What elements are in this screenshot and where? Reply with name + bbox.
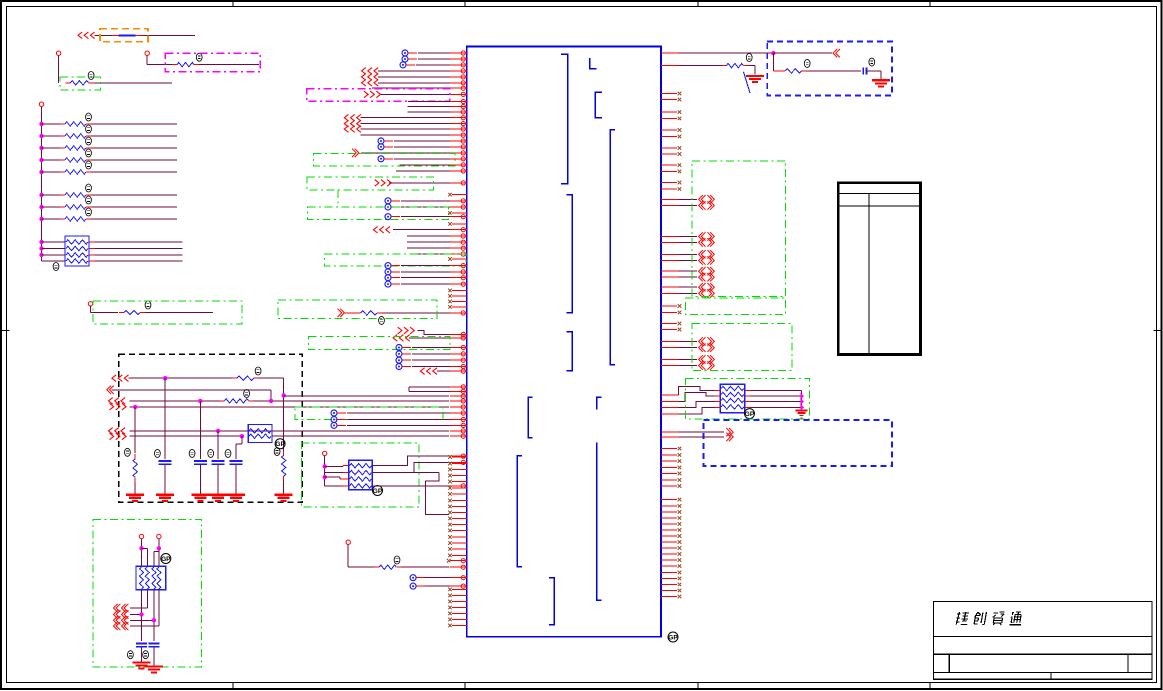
resistor RB1 label: [86, 184, 92, 192]
pin: [661, 347, 679, 349]
pin no-connect: [661, 559, 677, 561]
resistor R3: [119, 312, 124, 314]
pin no-connect: [452, 295, 467, 297]
wire: [401, 206, 450, 208]
pin: [450, 395, 467, 397]
resistor pack RP3 element 2: [145, 567, 149, 589]
wire: [154, 551, 159, 553]
pin no-connect: [452, 517, 467, 519]
junction: [152, 618, 156, 622]
junction: [39, 253, 43, 257]
pin: [661, 413, 679, 415]
wire: [153, 647, 155, 666]
pin: [450, 152, 467, 154]
wire: [412, 366, 450, 368]
ground: [275, 494, 293, 496]
wire: [745, 390, 751, 392]
pin no-connect: [661, 305, 677, 307]
connector arrow: [114, 616, 118, 624]
resistor R9 label: [394, 556, 400, 564]
frame tick: [464, 1, 466, 7]
wire: [382, 312, 450, 314]
junction: [39, 158, 43, 162]
connector arrow: [699, 267, 703, 275]
connector arrow: [352, 149, 356, 157]
capacitor C4: [230, 460, 243, 462]
title block divider c: [1050, 673, 1052, 680]
wire elbow: [42, 260, 66, 262]
resistor pack RP5 element 1: [721, 386, 744, 390]
bus bracket: [561, 54, 568, 183]
resistor RB3: [42, 218, 61, 220]
pin: [661, 253, 679, 255]
junction: [39, 217, 43, 221]
wire: [325, 485, 343, 487]
connector arrow: [398, 327, 402, 334]
pin: [450, 200, 467, 202]
pin: [450, 117, 467, 119]
pin no-connect: [452, 475, 467, 477]
connector arrow: [110, 403, 114, 410]
svg-text:GP: GP: [161, 556, 171, 563]
pin no-connect: [661, 164, 677, 166]
blue pin: [402, 50, 408, 56]
wire: [394, 146, 450, 148]
highlight box (magenta): [307, 89, 450, 102]
resistor R1 label: [88, 72, 94, 80]
pin: [450, 247, 467, 249]
pin no-connect: [661, 499, 677, 501]
bus bracket: [595, 92, 602, 117]
junction: [39, 240, 43, 244]
wire: [772, 53, 774, 71]
pin: [450, 435, 467, 437]
pin: [450, 52, 467, 54]
blue pin: [385, 275, 391, 281]
pin: [450, 123, 467, 125]
wire: [42, 241, 66, 243]
pin no-connect: [452, 511, 467, 513]
resistor RB2 label: [86, 196, 92, 204]
resistor pack RP1 body: [65, 236, 89, 266]
pin: [450, 206, 467, 208]
wire pack out 4: [372, 485, 450, 487]
pin: [450, 64, 467, 66]
wire: [867, 70, 881, 72]
junction: [163, 376, 167, 380]
ground: [796, 410, 808, 412]
wire: [347, 412, 450, 414]
resistor RA1 label: [86, 113, 92, 121]
bus bracket: [597, 397, 602, 409]
wire: [401, 277, 450, 279]
wire: [284, 395, 449, 397]
pin: [450, 140, 467, 142]
connector arrow: [373, 226, 377, 233]
junction: [39, 193, 43, 197]
wire: [325, 466, 343, 468]
frame tick: [697, 1, 699, 7]
connector arrow: [344, 126, 348, 133]
highlight box (orange): [100, 29, 148, 42]
pin no-connect: [661, 553, 677, 555]
net arrow: [800, 393, 804, 400]
pin: [661, 365, 679, 367]
pin: [450, 106, 467, 108]
junction: [39, 205, 43, 209]
resistor pack RP1 element 3: [66, 253, 88, 257]
pin: [450, 577, 467, 579]
ground: [156, 494, 174, 496]
wire: [134, 482, 136, 494]
pin no-connect: [661, 565, 677, 567]
wire: [416, 64, 450, 66]
pin no-connect: [452, 505, 467, 507]
junction: [39, 246, 43, 250]
wire: [134, 407, 136, 453]
resistor pack RP3 element 4: [157, 567, 161, 589]
wire: [418, 331, 450, 335]
pin: [450, 366, 467, 368]
resistor pack RP1 label: [53, 263, 59, 271]
wire: [241, 436, 243, 444]
connector arrow: [107, 386, 111, 394]
green link: [442, 413, 444, 420]
ground: [191, 494, 209, 496]
wire: [425, 585, 450, 587]
resistor pack RP5 body: [720, 384, 745, 413]
resistor R1: [65, 82, 70, 84]
pin: [450, 370, 467, 372]
pin: [450, 58, 467, 60]
pin: [450, 419, 467, 421]
junction: [198, 399, 202, 403]
frame tick: [929, 1, 931, 7]
resistor pack RP5 element 2: [721, 392, 744, 396]
highlight box (green): [93, 519, 201, 667]
resistor pack RP3 body: [136, 566, 166, 590]
highlight box (magenta): [165, 53, 260, 71]
connector arrow: [699, 273, 703, 281]
pin: [450, 235, 467, 237]
pin no-connect: [661, 517, 677, 519]
ground: [227, 494, 245, 496]
bus bracket: [517, 456, 522, 567]
wire: [412, 347, 450, 349]
blue pin: [410, 583, 416, 589]
wire: [129, 435, 243, 437]
resistor pack RP3 element 1: [140, 567, 144, 589]
pin no-connect: [452, 554, 467, 556]
pin: [661, 292, 679, 294]
wire: [199, 464, 201, 494]
resistor pack RP5 label: [745, 409, 755, 419]
pin: [450, 485, 467, 487]
ground: [126, 494, 144, 496]
blue pin: [385, 198, 391, 204]
wire: [408, 387, 410, 392]
connector arrow: [362, 80, 366, 87]
capacitor C7: [862, 67, 864, 74]
blue pin: [331, 410, 337, 416]
wire: [145, 312, 213, 314]
wire: [58, 55, 60, 82]
wire: [745, 395, 751, 397]
blue pin: [396, 345, 402, 351]
pin no-connect: [452, 606, 467, 608]
bus bracket: [597, 442, 602, 600]
svg-text:GP: GP: [373, 488, 383, 495]
frame tick right: [1154, 330, 1163, 332]
connector arrow: [699, 256, 703, 264]
power pin VCC1: [56, 51, 60, 55]
pin no-connect: [661, 577, 677, 579]
pin no-connect: [452, 487, 467, 489]
connector arrow: [699, 250, 703, 258]
power pin VCC3: [39, 102, 43, 106]
power pin VCC2: [145, 51, 149, 55]
bus bracket: [610, 130, 615, 365]
pin: [450, 566, 467, 568]
highlight box (green): [295, 407, 443, 420]
blue pin: [378, 138, 384, 144]
resistor R10 label: [804, 59, 810, 67]
pin no-connect: [452, 536, 467, 538]
blue pin: [378, 156, 384, 162]
pin: [450, 560, 467, 562]
pin: [450, 271, 467, 273]
capacitor C7 label: [869, 58, 875, 66]
wire: [401, 271, 450, 273]
blue pin: [385, 263, 391, 269]
resistor pack RP2 body: [248, 425, 272, 443]
wire: [199, 401, 201, 459]
pin no-connect: [661, 111, 677, 113]
pin no-connect: [661, 529, 677, 531]
wire: [235, 464, 237, 494]
capacitor C3: [212, 460, 225, 462]
wire: [401, 283, 450, 285]
pin: [450, 312, 467, 314]
resistor RA4 label: [86, 149, 92, 157]
pin: [450, 170, 467, 172]
connector arrow: [112, 375, 116, 382]
ground: [209, 494, 227, 496]
wire: [142, 547, 148, 549]
junction: [323, 475, 327, 479]
resistor RA5: [42, 171, 61, 173]
wire: [412, 359, 450, 361]
pin: [450, 265, 467, 267]
pin no-connect: [661, 454, 677, 456]
connector arrow: [699, 195, 703, 203]
connector arrow: [114, 622, 118, 630]
pin no-connect: [661, 311, 677, 313]
pin: [450, 461, 467, 463]
junction: [771, 51, 775, 55]
title text company name (drawn glyphs): [956, 612, 1023, 625]
svg-text:GP: GP: [275, 441, 285, 448]
wire: [715, 390, 721, 392]
inductor L1 wire segment: [94, 34, 112, 36]
blue pin: [410, 575, 416, 581]
highlight box (black dashed): [119, 354, 302, 502]
frame tick left: [1, 330, 10, 332]
wire: [259, 377, 284, 379]
pin: [450, 134, 467, 136]
wire: [94, 82, 173, 84]
power pin VCC7: [323, 451, 327, 455]
wire: [401, 265, 450, 267]
pin: [450, 164, 467, 166]
resistor RA1: [42, 123, 61, 125]
resistor pack RP3 label: [161, 554, 171, 564]
wire: [141, 647, 143, 662]
pin no-connect: [661, 535, 677, 537]
highlight box (blue dashed): [704, 420, 892, 466]
wire pack out 1: [372, 456, 450, 466]
wire: [344, 312, 356, 314]
ground: [746, 75, 764, 77]
blue pin: [396, 351, 402, 357]
bus bracket: [566, 195, 572, 313]
blue pin: [331, 417, 337, 423]
wire: [141, 539, 143, 567]
pin: [450, 390, 467, 392]
pin: [450, 359, 467, 361]
title block line 1: [934, 635, 1152, 637]
pin: [450, 76, 467, 78]
connector arrow J1: [78, 32, 82, 39]
connector arrow: [114, 604, 118, 612]
power pin VCC4: [88, 302, 92, 306]
pin no-connect: [661, 153, 677, 155]
pin: [661, 52, 679, 54]
capacitor C3 label: [208, 449, 214, 457]
net arrow: [800, 404, 804, 411]
pin no-connect: [661, 466, 677, 468]
pin no-connect: [661, 479, 677, 481]
pin: [450, 82, 467, 84]
wire: [685, 393, 715, 402]
revision table header line: [838, 193, 920, 195]
wire: [325, 476, 340, 478]
wire: [679, 407, 715, 414]
resistor R8: [356, 312, 361, 314]
pin: [450, 412, 467, 414]
pin: [450, 277, 467, 279]
blue pin: [385, 269, 391, 275]
wire: [807, 70, 862, 72]
resistor pack RP4 element 4: [350, 484, 372, 488]
wire: [324, 456, 326, 486]
pin: [661, 235, 679, 237]
pin: [661, 340, 679, 342]
wire: [129, 430, 449, 432]
highlight box (green): [307, 177, 433, 190]
wire: [745, 401, 751, 403]
junction: [216, 429, 220, 433]
pin: [450, 128, 467, 130]
pin: [661, 358, 679, 360]
wire: [90, 306, 92, 313]
connector arrow: [375, 180, 379, 187]
highlight box (green): [301, 443, 419, 507]
pin: [661, 431, 679, 433]
wire: [347, 419, 450, 421]
connector arrow: [699, 289, 703, 297]
capacitor C4 label: [225, 449, 231, 457]
IC U1 body: [467, 47, 661, 637]
wire: [401, 216, 450, 218]
junction: [282, 393, 286, 397]
connector arrow: [699, 238, 703, 246]
highlight box (green strip): [685, 298, 785, 314]
pin no-connect: [661, 129, 677, 131]
pin: [661, 205, 679, 207]
pin: [450, 353, 467, 355]
pin no-connect: [661, 117, 677, 119]
pin no-connect: [661, 93, 677, 95]
wire: [254, 400, 449, 402]
pin no-connect: [452, 212, 467, 214]
title block line 2: [934, 653, 1152, 655]
pin no-connect: [661, 135, 677, 137]
highlight box (green): [686, 378, 810, 419]
connector arrow: [114, 610, 118, 618]
wire: [418, 52, 450, 54]
pin no-connect: [661, 323, 677, 325]
wire: [158, 590, 160, 626]
wire: [283, 481, 285, 494]
pin: [450, 406, 467, 408]
pin no-connect: [452, 469, 467, 471]
resistor R10: [780, 70, 785, 72]
resistor RA2: [42, 135, 61, 137]
connector arrow: [110, 433, 114, 440]
pin no-connect: [452, 524, 467, 526]
pin: [450, 386, 467, 388]
pin no-connect: [452, 300, 467, 302]
resistor RA2 label: [86, 125, 92, 133]
junction: [39, 146, 43, 150]
resistor R7: [283, 450, 285, 455]
bus bracket: [566, 332, 572, 371]
connector arrow: [726, 428, 730, 436]
wire: [42, 254, 66, 256]
junction: [39, 170, 43, 174]
highlight box (green): [692, 324, 792, 371]
pin: [450, 229, 467, 231]
resistor RB1: [42, 194, 61, 196]
resistor pack RP4 element 3: [350, 477, 372, 481]
pin: [450, 333, 467, 335]
pin no-connect: [661, 547, 677, 549]
resistor R2: [172, 64, 177, 66]
pin: [450, 337, 467, 339]
pin no-connect: [452, 618, 467, 620]
wire: [412, 353, 450, 355]
wire: [347, 544, 349, 567]
resistor R5 label: [244, 390, 250, 398]
pin: [661, 276, 679, 278]
ground: [145, 665, 163, 667]
pin: [450, 93, 467, 95]
capacitor C1 label: [155, 449, 161, 457]
connector arrow: [364, 91, 368, 98]
connector arrow: [699, 337, 703, 345]
wire: [401, 566, 449, 568]
